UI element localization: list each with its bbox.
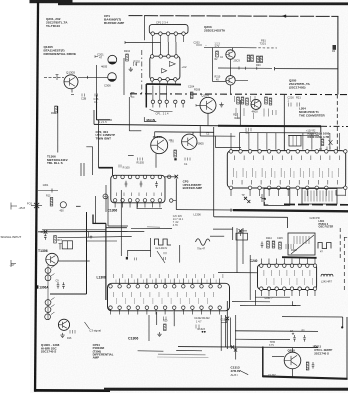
- op-amp IC CP1 body: [149, 25, 188, 34]
- X junction y231: [239, 229, 243, 233]
- transistor Q1306: [151, 137, 168, 154]
- bus X junction: [44, 230, 48, 234]
- op-amp IC CP1 pins: [151, 32, 155, 36]
- wire corner x92.5: [86, 147, 92, 175]
- transistor Q1305: [64, 75, 78, 89]
- verticals x227: [226, 301, 228, 349]
- resistor R1301: [50, 198, 53, 207]
- inner frame right vertical: [337, 16, 339, 95]
- transistor Q-osc small: [251, 99, 261, 109]
- wire y236 left: [210, 235, 224, 237]
- junction marks: [59, 244, 63, 250]
- sub box below IC201 right: [302, 189, 337, 205]
- wire Q203b emitter: [230, 85, 232, 94]
- inductor L243 coil: [321, 274, 333, 276]
- border frame bottom: [34, 389, 110, 392]
- IC CP04 bottom pins: [109, 306, 113, 310]
- op-amp IC-B body: [150, 56, 180, 79]
- wire Q204 left: [196, 104, 200, 106]
- pcb boundary dash vertical x142: [141, 50, 143, 94]
- wire x93 vertical thick: [92, 215, 94, 225]
- inner frame top line: [129, 15, 339, 18]
- wire y135 right: [288, 134, 319, 136]
- wire Q810 top: [292, 348, 294, 352]
- wire x129 corner: [128, 97, 130, 131]
- op-amp IC-B top pins: [150, 55, 154, 59]
- resistor column R211: [237, 97, 240, 104]
- svg-text:SIGNAL INPUT: SIGNAL INPUT: [1, 235, 22, 239]
- wires right of IC-F: [339, 228, 341, 258]
- wire x106 left: [105, 185, 107, 212]
- connector CN label line: [150, 109, 173, 111]
- connector CN stubs: [153, 86, 167, 101]
- wire y354 gray: [158, 353, 206, 356]
- transistor Q1307: [182, 134, 197, 149]
- left dash marks: [128, 155, 134, 157]
- wire x94 corner: [93, 110, 95, 124]
- wire y331: [235, 330, 318, 333]
- wire Q204 down: [207, 113, 209, 126]
- IC CP04 inner marks: [114, 292, 214, 297]
- wire x124 vertical: [123, 58, 125, 95]
- pcb boundary dash y204 right: [284, 203, 348, 205]
- wire base Q1305: [44, 76, 64, 78]
- wire vertical feed x144.6: [144, 16, 146, 40]
- pcb label MAIN box: [144, 117, 156, 121]
- wire y132.5 above IC201: [240, 132, 319, 134]
- border frame left: [34, 2, 39, 392]
- test point TP crosses: [244, 197, 247, 200]
- capacitors mid: [57, 282, 60, 289]
- resistor R205 marks: [82, 94, 85, 97]
- wire y131.8 above Q1306: [155, 131, 214, 134]
- wire below IC CP2 pin: [137, 202, 162, 209]
- wire corner x265 above y210: [265, 202, 269, 205]
- verticals x237: [236, 228, 238, 273]
- wire Q810 base: [272, 356, 284, 358]
- IC CP04 body: [108, 283, 230, 311]
- svg-text:-45.8: -45.8: [19, 206, 26, 210]
- wire y47.5: [204, 46, 254, 49]
- IC IC240 top pins: [260, 264, 264, 268]
- vertical x250: [249, 255, 251, 300]
- wire y356 seg: [157, 356, 208, 358]
- capacitor C810 plus: [293, 335, 296, 342]
- resistor R221 cluster: [321, 139, 324, 146]
- signal arrow diagonal: [157, 251, 165, 263]
- bus wire 3: [58, 236, 132, 237]
- dash sym: [76, 205, 81, 207]
- transistor Q203a: [226, 50, 235, 59]
- wires x81 x84: [80, 163, 82, 176]
- wire y316.6: [282, 316, 343, 318]
- capacitor C1317: [44, 233, 47, 240]
- IC IC201 bottom stubs: [231, 189, 345, 196]
- capacitor C202 can: [108, 73, 117, 82]
- wire thick y257: [282, 256, 317, 259]
- wire seg y227 gray: [147, 226, 160, 228]
- IC IC240 inner marks: [264, 270, 310, 276]
- wire y297: [255, 296, 290, 298]
- wire x86 main vertical: [86, 212, 88, 294]
- wire x58 long vertical: [57, 106, 59, 153]
- IC CP04 bottom stubs: [111, 309, 220, 314]
- wire x212.4 branch: [211, 48, 213, 82]
- verticals x221-235: [220, 315, 222, 351]
- ground near R202: [129, 67, 133, 72]
- op-amp IC CP2 bottom pins: [113, 199, 117, 203]
- transistor Q1308: [58, 319, 69, 330]
- IC IC201 pin number marks top: [235, 156, 340, 161]
- wire x96 down: [95, 65, 97, 120]
- resistor R1320: [164, 324, 167, 331]
- wire IC CP2 right to X: [165, 176, 176, 178]
- sub box below IC201 left: [264, 189, 290, 206]
- wire x179.7 down: [179, 245, 181, 263]
- transistor Q203b: [226, 76, 235, 85]
- wire y261: [59, 260, 90, 262]
- parts below Q1306: [138, 158, 143, 161]
- wires IC CP2 bottom stubs: [115, 202, 160, 208]
- resistor R810: [306, 362, 309, 370]
- op-amp IC-B triangle 2: [162, 69, 167, 73]
- label 1306A dark: [35, 285, 38, 288]
- wire y228.5: [131, 227, 172, 229]
- wire Q1306 down: [155, 154, 157, 168]
- bus wire pair upper: [95, 196, 97, 224]
- wire x96.7 corner: [96, 95, 98, 120]
- transistor Q204: [200, 97, 216, 113]
- vertical wire x240: [239, 100, 241, 126]
- connector FO1 star: [34, 203, 39, 208]
- ground left of Q204: [219, 102, 223, 107]
- IC IC240 bottom pins: [260, 287, 264, 291]
- wire y272.5: [218, 272, 258, 274]
- connector CN row circles: [151, 100, 154, 103]
- connector chain circles: [45, 268, 51, 274]
- resistor column R214: [265, 97, 268, 104]
- IC IC201 body: [227, 151, 345, 188]
- diode D2 junction: [260, 194, 265, 202]
- wire corner CP x240: [240, 230, 247, 232]
- bus wire 2: [42, 229, 106, 231]
- transformer box: [62, 241, 72, 249]
- transistor marks inside IC CP2: [117, 193, 162, 197]
- resistor R206 right: [190, 92, 193, 99]
- wire below IC201 pin x336: [336, 190, 346, 195]
- bus wire 1: [38, 230, 144, 232]
- wire top corner: [293, 301, 301, 305]
- wire x105.9 vertical: [105, 223, 107, 300]
- parts near Q1308: [70, 330, 75, 334]
- component cluster below Q1305: [55, 106, 58, 113]
- wire y136 cluster: [199, 126, 201, 136]
- vertical wire x284 from dash: [283, 95, 285, 151]
- square wave symbol 2: [318, 243, 331, 249]
- pcb boundary long line y125: [94, 124, 218, 125]
- wires IC-B bottom to y84: [152, 81, 175, 84]
- IC CP04 tiny top text: [116, 280, 216, 284]
- wire long y210 thick: [233, 210, 348, 211]
- wire long y68.6: [275, 68, 338, 70]
- wire corner to IC-D pin1: [216, 136, 241, 147]
- node circle on x106 wire: [103, 194, 108, 199]
- wire y347: [178, 347, 318, 348]
- capacitor C811: [303, 335, 306, 342]
- wire long y210 thin: [176, 209, 233, 211]
- label marks right border: [333, 45, 337, 50]
- wire y229 cluster: [213, 228, 233, 230]
- component band above IC-F: [267, 241, 270, 248]
- wire x176.3 down: [175, 179, 177, 210]
- parts below Q1307: [185, 158, 190, 161]
- X junction node: [175, 175, 179, 179]
- resistor R1305: [174, 150, 177, 157]
- component box y233: [236, 233, 248, 240]
- wire L under square wave: [128, 250, 151, 256]
- wire y339.5: [235, 338, 290, 340]
- wire thick y84: [146, 83, 181, 86]
- ground below IC-E: [157, 332, 161, 337]
- pcb boundary dash horizontal y94: [130, 93, 348, 96]
- wire x121.3 vertical: [120, 190, 122, 256]
- capacitor C1301 can: [60, 202, 66, 208]
- IC IC201 inner marks: [234, 168, 339, 177]
- wire Q203 interconnect: [230, 59, 232, 75]
- IC IC240 body: [258, 264, 317, 289]
- sine wave symbol: [196, 239, 210, 246]
- capacitor symbols inside IC CP2: [125, 181, 128, 188]
- resistor pair R208: [257, 56, 260, 63]
- wire emitter Q1305: [71, 89, 73, 93]
- border frame top thick bar: [30, 0, 73, 3]
- wire collector Q1305: [78, 76, 108, 78]
- wire y305.6: [240, 304, 296, 306]
- box with diagonal: [288, 233, 315, 255]
- wire x98.5 to IC-C: [98, 120, 100, 168]
- thick wire L bottom right: [262, 347, 264, 378]
- wire x230.5 down: [230, 318, 232, 348]
- IC CP04 top stubs: [120, 279, 220, 285]
- square wave symbol 1: [155, 239, 172, 245]
- crystal box X201: [289, 136, 301, 147]
- IC IC201 top pins: [229, 150, 233, 154]
- X junction x227: [226, 317, 230, 321]
- arrow to AUX: [240, 370, 249, 374]
- wire y42.5: [125, 42, 161, 44]
- transistor Q1309 left: [46, 253, 58, 265]
- IC CP04 top pins: [109, 285, 113, 289]
- resistor R1317: [54, 236, 57, 244]
- dashes x344: [343, 237, 345, 290]
- op-amp IC CP2 top pins: [113, 175, 117, 179]
- wire y67.9: [218, 67, 272, 69]
- resistor R204: [126, 54, 129, 61]
- wire corner right above IC201: [320, 126, 322, 132]
- capacitor C201 can: [108, 55, 117, 64]
- junction crosses x232: [231, 345, 234, 348]
- wire y217 long: [214, 216, 288, 219]
- IC IC201 top stubs: [231, 133, 339, 150]
- wire x149.6 down: [150, 238, 152, 257]
- op-amp IC-B bottom pins: [150, 78, 154, 82]
- rotated label marks col: [235, 96, 256, 102]
- vertical right x347: [346, 317, 348, 378]
- IC IC240 bottom stubs: [261, 290, 315, 296]
- wire y350 segs: [138, 350, 164, 352]
- IC IC201 bottom pins: [229, 186, 233, 190]
- vertical wire x213.7: [213, 127, 215, 217]
- resistor pair R207: [247, 55, 250, 62]
- wire x174 down: [173, 312, 175, 326]
- op-amp IC-B triangle 1: [169, 62, 175, 67]
- transistor Q810: [284, 352, 301, 369]
- op-amp IC CP2 body: [111, 175, 165, 203]
- wires IC CP1 pins down: [153, 35, 184, 42]
- IC IC240 top stubs: [261, 259, 315, 264]
